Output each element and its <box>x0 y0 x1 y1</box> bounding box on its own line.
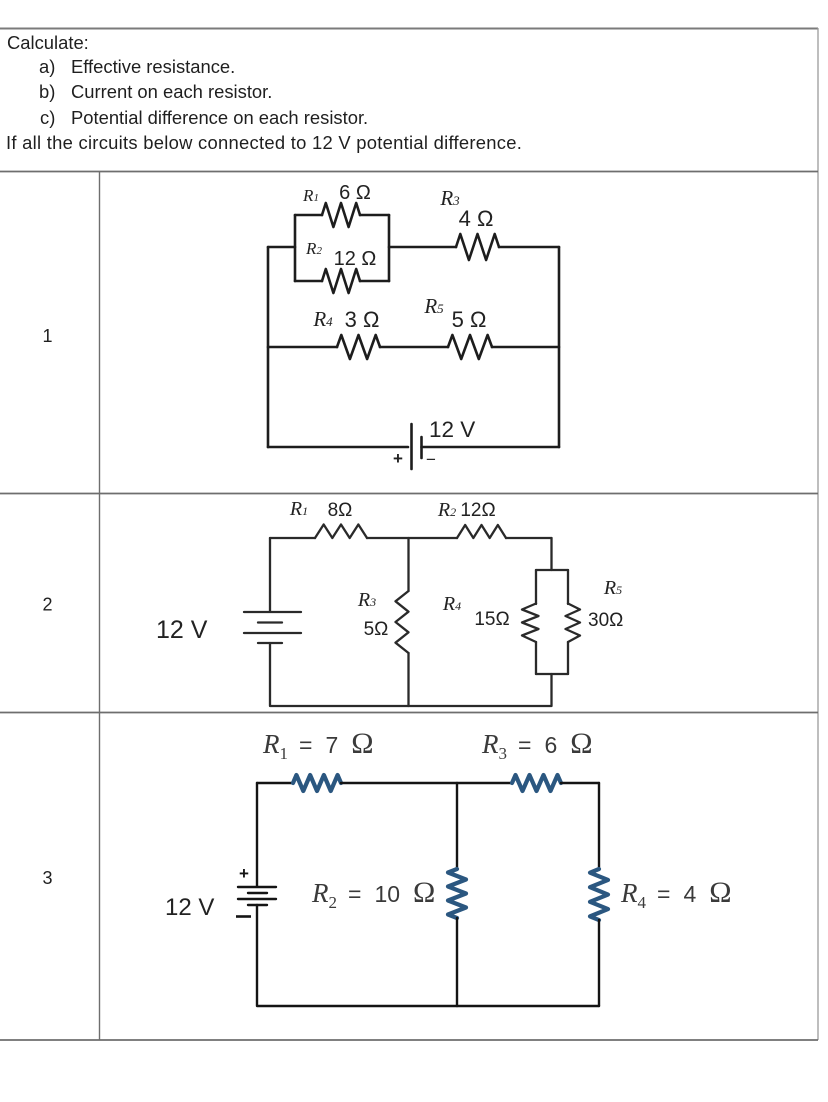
wire c2 box right edge lower <box>567 642 569 674</box>
header item c <box>40 109 55 127</box>
wire c3 top-left segment <box>257 782 293 784</box>
header line 1 <box>7 34 89 52</box>
svg-text:12 V: 12 V <box>156 616 208 644</box>
wire c3 right vertical lower <box>598 920 600 1006</box>
svg-text:R4: R4 <box>312 307 333 331</box>
wire c2 box left edge upper <box>535 570 537 604</box>
resistor R2 (10 ohm) blue vertical <box>448 869 466 918</box>
wire c3 middle vertical upper <box>456 783 458 869</box>
svg-text:R2: R2 <box>437 499 456 521</box>
svg-text:−: − <box>426 450 436 469</box>
resistor R3 (4 ohm) <box>456 234 499 260</box>
label c3 battery minus <box>236 915 251 918</box>
svg-text:12 V: 12 V <box>429 417 475 442</box>
svg-text:2: 2 <box>42 595 52 615</box>
battery B2 plate short lower <box>258 642 282 644</box>
wire c2 bottom right segment <box>408 674 552 706</box>
svg-text:5Ω: 5Ω <box>364 619 389 640</box>
wire c2 middle vertical upper <box>407 538 409 591</box>
wire c2 left vertical upper <box>269 538 271 611</box>
wire c3 left vertical upper <box>256 783 258 886</box>
header line 2 <box>6 134 522 152</box>
wire c2 parallel box bottom edge <box>536 673 568 675</box>
wire c1 box top-left segment <box>295 214 322 217</box>
svg-text:+: + <box>393 449 403 468</box>
svg-text:12 V: 12 V <box>165 894 214 921</box>
battery B3 plate long 1 <box>238 886 276 888</box>
resistor R2 (12 ohm) <box>322 269 360 293</box>
wire c1 bottom left segment <box>268 446 408 449</box>
svg-text:R1: R1 <box>289 498 308 520</box>
wire c1 middle between R4 and R5 <box>380 346 448 349</box>
wire c2 box left edge lower <box>535 642 537 674</box>
svg-text:+: + <box>239 864 249 883</box>
header item a <box>39 58 55 76</box>
svg-text:12Ω: 12Ω <box>460 500 495 521</box>
resistor R5 (5 ohm) <box>448 335 492 359</box>
battery B3 plate short 1 <box>248 892 267 894</box>
resistor R1 (8 ohm) <box>315 525 367 539</box>
svg-text:R3: R3 <box>357 589 376 611</box>
wire c1 left vertical <box>267 247 270 447</box>
wire c1 parallel box right edge <box>388 215 391 281</box>
wire c2 top-left segment <box>270 537 315 539</box>
table header separator <box>0 171 818 173</box>
svg-text:R4: R4 <box>442 593 461 615</box>
wire c3 bottom right segment <box>457 1005 599 1007</box>
battery B1 negative plate <box>420 437 423 458</box>
table right border <box>817 28 819 1040</box>
svg-text:R5: R5 <box>423 294 444 318</box>
resistor R1 (7 ohm) blue <box>293 775 341 791</box>
wire c2 right vertical upper <box>550 538 552 570</box>
wire c2 left vertical lower <box>270 643 408 706</box>
svg-text:5 Ω: 5 Ω <box>452 307 487 332</box>
table row1/row2 separator <box>0 493 818 495</box>
svg-text:30Ω: 30Ω <box>588 610 623 631</box>
svg-text:R2=10Ω: R2=10Ω <box>311 876 435 912</box>
svg-text:R1=7Ω: R1=7Ω <box>262 727 374 763</box>
svg-text:R2: R2 <box>305 239 322 258</box>
battery B3 plate short 2 <box>248 904 267 906</box>
resistor R3 (6 ohm) blue <box>512 775 561 791</box>
svg-text:R4=4Ω: R4=4Ω <box>620 876 732 912</box>
table bottom border <box>0 1039 818 1041</box>
wire c1 bottom right segment <box>422 446 560 449</box>
wire c1 box bottom-right segment <box>360 280 389 283</box>
wire c3 middle vertical lower <box>456 918 458 1006</box>
wire c1 box top-right segment <box>360 214 389 217</box>
wire c3 top middle segment <box>341 782 512 784</box>
battery B1 positive plate <box>410 424 413 469</box>
wire c3 right vertical upper <box>598 783 600 869</box>
resistor R5 (30 ohm) on box right edge <box>566 604 581 643</box>
table row2/row3 separator <box>0 712 818 714</box>
table top border <box>0 28 818 30</box>
wire c2 middle vertical lower <box>407 653 409 706</box>
wire c1 middle left segment <box>268 346 337 349</box>
svg-text:3: 3 <box>42 868 52 888</box>
wire c1 R3 to right vertical <box>499 246 559 249</box>
svg-text:R3=6Ω: R3=6Ω <box>481 727 593 763</box>
wire c1 right vertical <box>558 247 561 447</box>
wire c1 middle right segment <box>492 346 559 349</box>
svg-text:8Ω: 8Ω <box>328 500 353 521</box>
resistor R1 (6 ohm) <box>322 203 360 227</box>
wire c2 parallel box top edge <box>536 569 568 571</box>
wire c2 box right edge upper <box>567 570 569 604</box>
battery B2 plate long top <box>244 611 301 613</box>
resistor R4 (15 ohm) on box left edge <box>522 604 539 643</box>
resistor R3 (5 ohm) vertical <box>396 591 409 653</box>
svg-text:15Ω: 15Ω <box>474 609 509 630</box>
wire c1 parallel box left edge <box>294 215 297 281</box>
svg-text:1: 1 <box>42 326 52 346</box>
svg-text:R5: R5 <box>603 577 622 599</box>
header item b <box>39 83 55 101</box>
wire c3 left vertical lower <box>257 905 457 1006</box>
wire c2 top-right segment <box>506 537 552 539</box>
wire c3 top-right segment <box>561 782 599 784</box>
resistor R4 (4 ohm) blue vertical <box>590 869 608 920</box>
svg-text:6 Ω: 6 Ω <box>339 182 371 204</box>
battery B2 plate short upper <box>258 621 282 623</box>
svg-text:12 Ω: 12 Ω <box>334 248 377 270</box>
wire c1 box to R3 <box>389 246 456 249</box>
svg-text:4 Ω: 4 Ω <box>459 206 494 231</box>
resistor R2 (12 ohm) <box>457 525 506 538</box>
svg-text:R3: R3 <box>439 186 460 210</box>
wire c2 top middle segment <box>367 537 457 539</box>
svg-text:3 Ω: 3 Ω <box>345 307 380 332</box>
resistor R4 (3 ohm) <box>337 335 380 359</box>
battery B2 plate long bottom <box>244 632 301 634</box>
table column divider <box>99 172 101 1040</box>
battery B3 plate long 2 <box>238 898 276 900</box>
wire c1 box bottom-left segment <box>295 280 322 283</box>
svg-text:R1: R1 <box>302 186 319 205</box>
wire c1 left stub into parallel box <box>268 246 295 249</box>
